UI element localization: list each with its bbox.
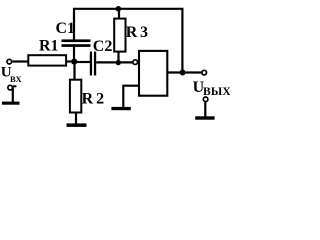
input lower terminal circle bbox=[8, 85, 13, 90]
node B: junction R3 bottom on input rail bbox=[116, 60, 121, 65]
resistor R1 bbox=[28, 55, 66, 65]
svg-text:R1: R1 bbox=[39, 38, 59, 55]
wire: input to R1 bbox=[13, 60, 29, 62]
svg-text:R2: R2 bbox=[82, 90, 108, 107]
capacitor C1 top plate bbox=[62, 39, 91, 42]
svg-text:R3: R3 bbox=[126, 24, 151, 41]
wire: amp second input bbox=[123, 85, 139, 87]
op-amp U1 inverting input circle bbox=[133, 60, 138, 65]
wire: R2 bottom stub bbox=[75, 113, 77, 125]
wire: node A to C2 bbox=[74, 61, 90, 63]
output terminal circle Uвых bbox=[202, 70, 207, 75]
node A: junction R1/C1/C2/R2 bbox=[71, 59, 77, 65]
wire: C1 bottom stub down to node A bbox=[73, 47, 75, 62]
wire: output terminal to ground bbox=[204, 102, 206, 117]
svg-text:ВХ: ВХ bbox=[10, 74, 22, 84]
op-amp U1 body bbox=[139, 51, 167, 96]
input terminal circle Uвх bbox=[7, 59, 12, 64]
capacitor C2 right plate bbox=[94, 52, 96, 76]
wire: R1 to node A bbox=[66, 60, 75, 62]
resistor R3 bbox=[114, 19, 125, 52]
wire: R2 stub from node A bbox=[73, 62, 75, 80]
wire: amp output bbox=[168, 71, 202, 73]
ground at output bbox=[195, 116, 214, 119]
svg-text:ВЫХ: ВЫХ bbox=[203, 86, 231, 98]
wire: short stub right of lower terminal bbox=[13, 85, 16, 87]
wire: R3 top stub bbox=[118, 9, 120, 19]
ground under R2 bbox=[67, 123, 87, 127]
ground at input bbox=[2, 102, 20, 105]
output lower terminal circle bbox=[203, 97, 208, 102]
wire: lower terminal to ground bbox=[12, 88, 14, 103]
resistor R2 bbox=[70, 80, 81, 113]
node C: junction of R3 top with top wire bbox=[116, 6, 122, 12]
capacitor C2 left plate bbox=[90, 52, 92, 76]
wire: top feedback path from C1 up, across, down to output node bbox=[74, 9, 182, 73]
wire: C2 to amp input bbox=[96, 61, 132, 63]
node D: output/feedback junction bbox=[180, 70, 186, 76]
wire: down to ground from second input bbox=[122, 85, 124, 108]
wire: R3 bottom stub bbox=[117, 52, 119, 63]
ground at amp second input bbox=[111, 107, 130, 110]
capacitor C1 bottom plate bbox=[62, 44, 91, 47]
svg-text:C1: C1 bbox=[56, 20, 76, 37]
